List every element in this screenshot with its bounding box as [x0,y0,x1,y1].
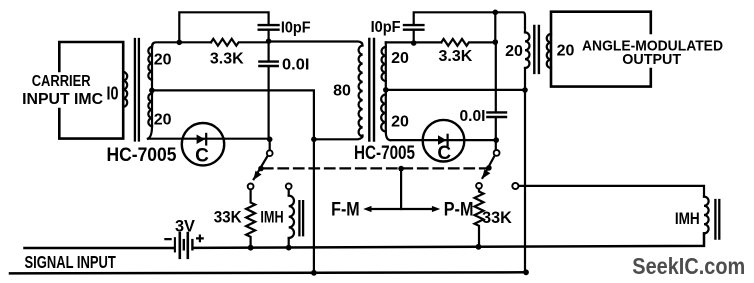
svg-text:IMH: IMH [675,210,700,228]
svg-text:IMH: IMH [260,209,283,227]
svg-text:I0: I0 [107,83,119,104]
svg-text:CARRIER: CARRIER [32,73,91,90]
svg-text:20: 20 [154,111,172,128]
svg-text:C: C [437,143,451,164]
svg-text:OUTPUT: OUTPUT [622,52,681,68]
svg-text:3.3K: 3.3K [439,48,473,65]
svg-text:20: 20 [154,51,172,68]
svg-text:20: 20 [505,43,523,60]
svg-text:3.3K: 3.3K [210,50,244,67]
svg-text:SIGNAL INPUT: SIGNAL INPUT [25,252,116,272]
svg-text:INPUT IMC: INPUT IMC [22,91,103,108]
svg-text:33K: 33K [214,209,242,227]
svg-text:HC-7005: HC-7005 [107,145,177,166]
svg-text:P-M: P-M [444,200,474,221]
svg-text:80: 80 [333,83,351,100]
svg-text:33K: 33K [482,209,512,227]
svg-text:I0pF: I0pF [281,20,311,37]
svg-text:20: 20 [391,113,409,130]
svg-text:I0pF: I0pF [371,19,401,36]
svg-text:0.0I: 0.0I [460,108,486,125]
svg-text:HC-7005: HC-7005 [354,143,415,164]
svg-text:0.0I: 0.0I [282,56,309,73]
svg-text:C: C [195,146,209,167]
svg-text:3V: 3V [175,218,195,236]
svg-text:20: 20 [557,43,575,60]
svg-text:20: 20 [391,50,409,67]
svg-text:SeekIC.com: SeekIC.com [632,253,745,279]
svg-text:F-M: F-M [331,200,360,221]
